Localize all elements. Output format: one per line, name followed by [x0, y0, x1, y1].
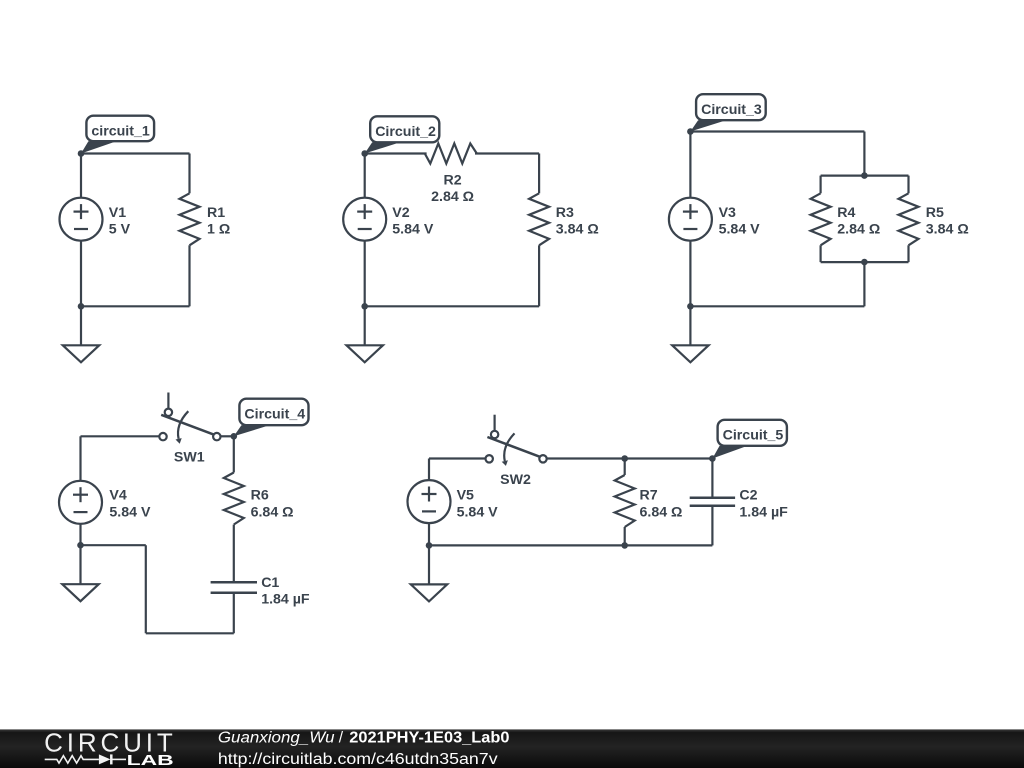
- svg-text:C1: C1: [261, 575, 279, 591]
- node junction parallel top: [861, 172, 868, 179]
- wire: [79, 524, 81, 545]
- svg-text:SW1: SW1: [174, 450, 205, 466]
- resistor R1: [180, 193, 200, 245]
- svg-text:Circuit_4: Circuit_4: [244, 407, 305, 423]
- node junction top-left circuit 2: [361, 150, 368, 157]
- label Circuit_5 callout: [712, 420, 786, 459]
- label Circuit_3 callout: [690, 94, 765, 131]
- wire: [711, 459, 713, 498]
- wire: [429, 544, 712, 546]
- footer bar: [0, 729, 1024, 768]
- wire: [821, 261, 909, 263]
- resistor R4: [811, 193, 831, 245]
- wire: [711, 506, 713, 546]
- wire: [821, 175, 909, 177]
- svg-text:5.84 V: 5.84 V: [457, 504, 499, 520]
- wire: [146, 632, 234, 634]
- svg-text:3.84 Ω: 3.84 Ω: [556, 221, 599, 237]
- wire: [81, 435, 160, 437]
- wire: [690, 130, 864, 132]
- wire: [428, 459, 430, 481]
- wire: [145, 545, 147, 633]
- resistor R6: [224, 473, 244, 525]
- node junction bottom circuit 2: [361, 303, 368, 310]
- svg-text:5.84 V: 5.84 V: [392, 221, 434, 237]
- svg-text:5 V: 5 V: [109, 221, 131, 237]
- ground: [672, 306, 708, 362]
- CircuitLab logo: [44, 728, 174, 768]
- resistor R2: [425, 144, 477, 164]
- wire: [689, 241, 691, 307]
- wire: [429, 457, 486, 459]
- svg-text:3.84 Ω: 3.84 Ω: [926, 221, 969, 237]
- wire: [81, 152, 190, 154]
- wire: [80, 241, 82, 307]
- svg-text:R5: R5: [926, 205, 944, 221]
- wire: [863, 132, 865, 176]
- svg-text:5.84 V: 5.84 V: [719, 221, 761, 237]
- wire: [428, 523, 430, 545]
- node junction bottom circuit 3: [687, 303, 694, 310]
- svg-text:circuit_1: circuit_1: [91, 124, 149, 140]
- svg-text:1.84 µF: 1.84 µF: [739, 504, 788, 520]
- voltage source V5: [408, 480, 451, 523]
- wire: [80, 154, 82, 198]
- svg-text:LAB: LAB: [127, 752, 174, 768]
- ground: [62, 545, 98, 601]
- voltage source V2: [343, 198, 386, 241]
- node junction top-left circuit 3: [687, 128, 694, 135]
- resistor R5: [899, 193, 919, 245]
- svg-text:6.84 Ω: 6.84 Ω: [251, 504, 294, 520]
- svg-text:R7: R7: [640, 488, 658, 504]
- wire: [863, 262, 865, 306]
- svg-text:V2: V2: [392, 205, 409, 221]
- svg-text:http://circuitlab.com/c46utdn3: http://circuitlab.com/c46utdn35an7v: [218, 751, 498, 768]
- wire: [188, 154, 190, 194]
- svg-text:Circuit_2: Circuit_2: [375, 124, 436, 140]
- svg-text:V1: V1: [109, 205, 126, 221]
- label Circuit_4 callout: [234, 399, 309, 437]
- svg-text:1.84 µF: 1.84 µF: [261, 592, 310, 608]
- switch SW1: [159, 393, 220, 444]
- svg-text:5.84 V: 5.84 V: [109, 504, 151, 520]
- wire: [79, 436, 81, 481]
- svg-text:V3: V3: [719, 205, 736, 221]
- wire: [689, 132, 691, 198]
- svg-text:/: /: [339, 730, 344, 747]
- ground: [63, 306, 99, 362]
- wire: [690, 305, 864, 307]
- svg-text:SW2: SW2: [500, 472, 531, 488]
- svg-text:V5: V5: [457, 488, 474, 504]
- node junction switch-R6 circuit 4: [231, 433, 238, 440]
- wire: [819, 245, 821, 262]
- wire: [819, 176, 821, 194]
- label circuit_1 callout: [81, 116, 154, 154]
- svg-text:2.84 Ω: 2.84 Ω: [837, 221, 880, 237]
- svg-text:C2: C2: [739, 488, 757, 504]
- svg-text:2021PHY-1E03_Lab0: 2021PHY-1E03_Lab0: [349, 730, 509, 747]
- voltage source V4: [59, 481, 102, 524]
- node junction top-left circuit 1: [78, 150, 85, 157]
- svg-text:R6: R6: [251, 488, 269, 504]
- node junction switch-R7: [621, 455, 628, 462]
- wire: [475, 152, 539, 154]
- svg-text:V4: V4: [109, 488, 126, 504]
- label Circuit_2 callout: [365, 116, 440, 153]
- wire: [81, 305, 190, 307]
- ground: [411, 545, 447, 601]
- capacitor C1: [211, 582, 257, 592]
- wire: [538, 245, 540, 306]
- wire: [221, 435, 234, 437]
- wire: [365, 305, 539, 307]
- svg-text:1 Ω: 1 Ω: [207, 221, 230, 237]
- wire: [233, 593, 235, 634]
- wire: [624, 459, 626, 476]
- wire: [547, 457, 713, 459]
- wire: [907, 245, 909, 262]
- wire: [81, 544, 146, 546]
- wire: [188, 245, 190, 306]
- svg-text:R1: R1: [207, 205, 225, 221]
- node junction R7 bottom: [621, 542, 628, 549]
- ground: [347, 306, 383, 362]
- svg-text:Circuit_5: Circuit_5: [723, 428, 784, 444]
- node junction V4 bottom: [77, 542, 84, 549]
- switch SW2: [486, 415, 547, 466]
- voltage source V1: [60, 198, 103, 241]
- svg-text:6.84 Ω: 6.84 Ω: [640, 504, 683, 520]
- wire: [624, 527, 626, 545]
- wire: [364, 241, 366, 307]
- node junction C2 top: [709, 455, 716, 462]
- wire: [364, 154, 366, 198]
- voltage source V3: [669, 198, 712, 241]
- node junction bottom circuit 1: [78, 303, 85, 310]
- svg-text:R4: R4: [837, 205, 855, 221]
- footer title text: [218, 730, 510, 747]
- node junction V5 bottom: [426, 542, 433, 549]
- svg-text:R2: R2: [444, 173, 462, 189]
- svg-text:Guanxiong_Wu: Guanxiong_Wu: [218, 730, 335, 747]
- node junction parallel bottom: [861, 259, 868, 266]
- capacitor C2: [690, 498, 735, 506]
- resistor R7: [615, 475, 635, 527]
- svg-text:R3: R3: [556, 205, 574, 221]
- wire: [538, 154, 540, 194]
- svg-text:2.84 Ω: 2.84 Ω: [431, 189, 474, 205]
- wire: [365, 152, 427, 154]
- resistor R3: [529, 193, 549, 245]
- wire: [233, 436, 235, 472]
- svg-text:Circuit_3: Circuit_3: [701, 102, 762, 118]
- wire: [907, 176, 909, 194]
- wire: [233, 525, 235, 583]
